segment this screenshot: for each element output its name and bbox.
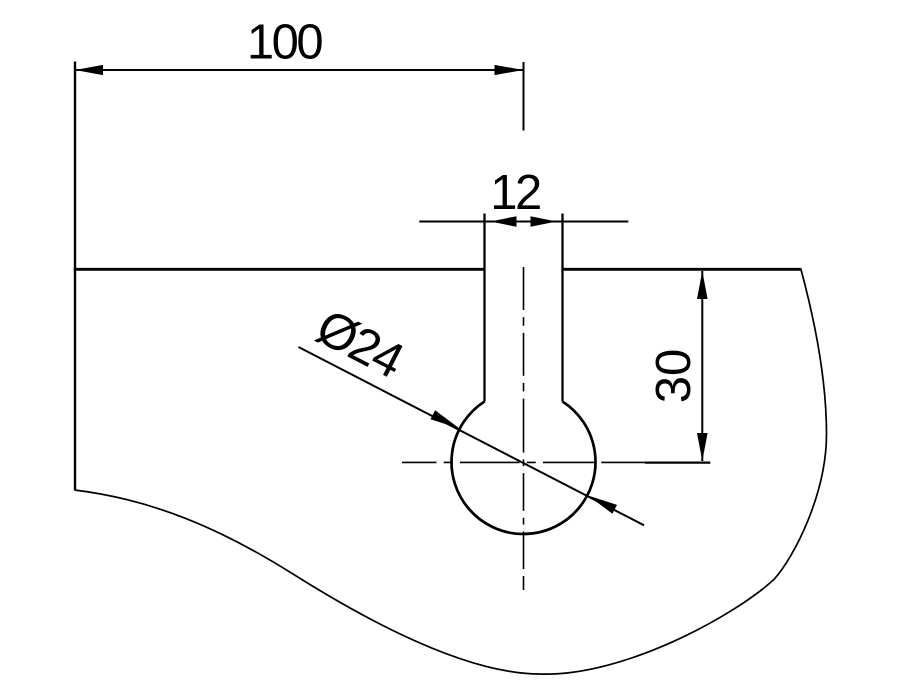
svg-text:100: 100 bbox=[247, 16, 323, 70]
svg-text:12: 12 bbox=[490, 166, 540, 220]
svg-text:Ø24: Ø24 bbox=[308, 299, 413, 389]
svg-text:30: 30 bbox=[647, 349, 701, 404]
